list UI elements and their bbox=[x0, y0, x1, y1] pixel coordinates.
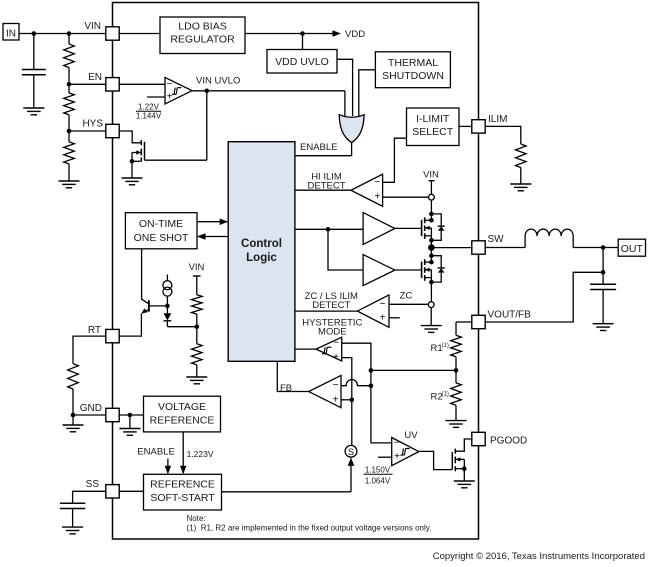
svg-text:−: − bbox=[394, 437, 400, 448]
svg-text:ENABLE: ENABLE bbox=[300, 142, 338, 153]
svg-text:+: + bbox=[374, 192, 380, 203]
svg-text:VOLTAGE: VOLTAGE bbox=[158, 401, 206, 413]
svg-text:DETECT: DETECT bbox=[312, 300, 350, 311]
svg-text:GND: GND bbox=[80, 403, 102, 414]
svg-text:SW: SW bbox=[488, 234, 505, 245]
svg-text:REFERENCE: REFERENCE bbox=[150, 479, 215, 491]
svg-text:OUT: OUT bbox=[621, 243, 644, 255]
svg-text:(1): (1) bbox=[442, 343, 449, 349]
svg-text:ON-TIME: ON-TIME bbox=[139, 218, 183, 230]
svg-text:SHUTDOWN: SHUTDOWN bbox=[382, 70, 444, 82]
svg-text:VOUT/FB: VOUT/FB bbox=[488, 310, 532, 321]
svg-text:VDD: VDD bbox=[345, 29, 365, 40]
svg-text:ZC: ZC bbox=[400, 291, 413, 302]
svg-text:ONE SHOT: ONE SHOT bbox=[134, 232, 189, 244]
svg-text:Control: Control bbox=[241, 238, 282, 250]
svg-text:VIN: VIN bbox=[423, 170, 439, 181]
svg-text:1.064V: 1.064V bbox=[365, 476, 391, 485]
svg-text:−: − bbox=[333, 380, 339, 391]
svg-text:−: − bbox=[374, 177, 380, 188]
svg-text:FB: FB bbox=[280, 383, 292, 394]
svg-text:I-LIMIT: I-LIMIT bbox=[416, 113, 450, 125]
svg-text:SELECT: SELECT bbox=[412, 126, 453, 138]
svg-text:1.22V: 1.22V bbox=[138, 103, 160, 112]
svg-text:SS: SS bbox=[86, 479, 100, 490]
svg-text:Logic: Logic bbox=[246, 252, 277, 264]
svg-text:MODE: MODE bbox=[318, 327, 347, 338]
svg-text:ILIM: ILIM bbox=[488, 114, 507, 125]
svg-text:LDO BIAS: LDO BIAS bbox=[178, 21, 226, 33]
svg-text:Note:: Note: bbox=[187, 514, 206, 523]
svg-text:Copyright © 2016, Texas Instru: Copyright © 2016, Texas Instruments Inco… bbox=[433, 551, 645, 562]
svg-text:+: + bbox=[333, 394, 339, 405]
svg-text:+: + bbox=[167, 92, 173, 103]
svg-text:1.144V: 1.144V bbox=[136, 111, 162, 120]
svg-text:+: + bbox=[394, 452, 400, 463]
svg-text:S: S bbox=[348, 447, 354, 457]
svg-text:1.150V: 1.150V bbox=[365, 465, 391, 474]
svg-text:IN: IN bbox=[6, 29, 16, 40]
svg-text:−: − bbox=[333, 338, 339, 349]
svg-text:EN: EN bbox=[88, 72, 102, 83]
svg-text:+: + bbox=[380, 312, 386, 323]
svg-text:ENABLE: ENABLE bbox=[137, 447, 175, 458]
svg-text:VIN: VIN bbox=[84, 21, 101, 32]
svg-text:(1) R1, R2 are implemented in: (1) R1, R2 are implemented in the fixed … bbox=[187, 524, 432, 533]
svg-text:(1): (1) bbox=[442, 392, 449, 398]
svg-text:HYS: HYS bbox=[82, 119, 103, 130]
svg-text:THERMAL: THERMAL bbox=[388, 57, 438, 69]
svg-text:REFERENCE: REFERENCE bbox=[150, 415, 215, 427]
svg-text:SOFT-START: SOFT-START bbox=[150, 492, 215, 504]
svg-text:REGULATOR: REGULATOR bbox=[170, 34, 235, 46]
svg-text:RT: RT bbox=[88, 325, 101, 336]
svg-text:VDD UVLO: VDD UVLO bbox=[275, 56, 329, 68]
svg-text:VIN UVLO: VIN UVLO bbox=[196, 76, 240, 87]
svg-text:UV: UV bbox=[404, 430, 418, 441]
svg-text:1.223V: 1.223V bbox=[187, 449, 214, 459]
svg-text:PGOOD: PGOOD bbox=[490, 436, 527, 447]
svg-text:−: − bbox=[167, 79, 173, 90]
svg-text:−: − bbox=[380, 299, 386, 310]
svg-text:VIN: VIN bbox=[189, 262, 205, 273]
svg-text:+: + bbox=[333, 352, 339, 363]
